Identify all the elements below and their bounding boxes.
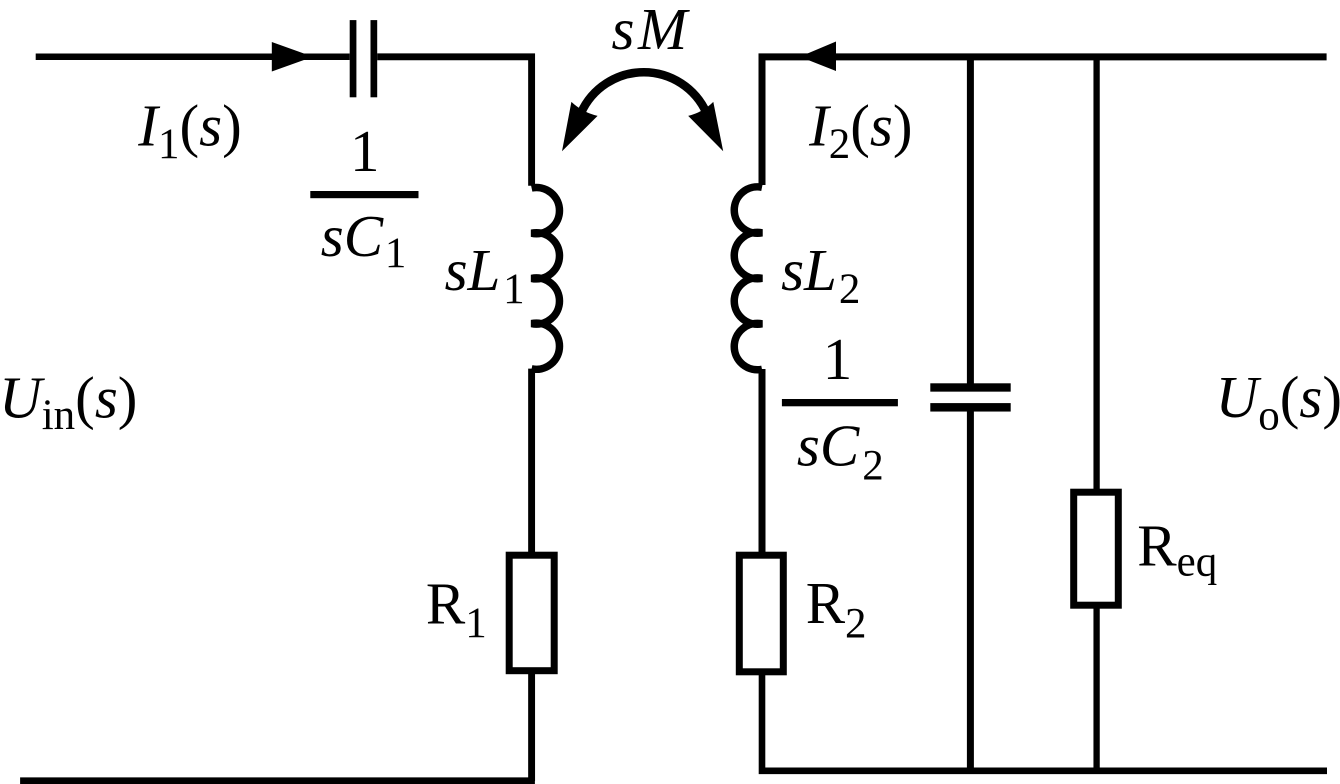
- svg-text:I1(s): I1(s): [137, 93, 241, 169]
- svg-text:Req: Req: [1137, 513, 1217, 586]
- svg-text:R1: R1: [426, 570, 487, 647]
- svg-text:Uin(s): Uin(s): [0, 365, 137, 440]
- svg-text:1: 1: [823, 326, 853, 392]
- svg-text:sC1: sC1: [321, 203, 407, 277]
- svg-text:I2(s): I2(s): [808, 93, 912, 169]
- svg-text:R2: R2: [806, 570, 867, 648]
- svg-text:sL2: sL2: [781, 237, 860, 313]
- svg-text:sC2: sC2: [797, 412, 884, 489]
- svg-text:Uo(s): Uo(s): [1216, 364, 1340, 439]
- svg-text:sL1: sL1: [445, 237, 525, 313]
- svg-text:1: 1: [350, 118, 380, 184]
- svg-text:sM: sM: [612, 0, 690, 62]
